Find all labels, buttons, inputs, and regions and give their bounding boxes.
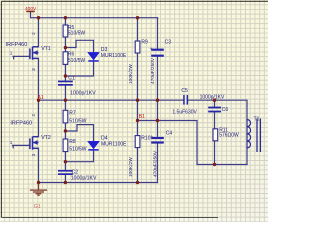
capacitor C1 [58,76,96,97]
svg-text:C1: C1 [68,76,75,82]
junction C2 / ground bus [64,181,67,184]
transformer core [257,119,260,153]
svg-text:1000p/1KV: 1000p/1KV [70,91,96,97]
svg-text:C4: C4 [166,131,173,137]
capacitor C5 [172,88,197,115]
wire VT1 source to node A1 [38,58,40,100]
capacitor C6 [200,94,229,113]
junction C6 top [213,99,216,102]
junction R11 bottom [213,163,216,166]
junction C3/C4 [156,99,159,102]
svg-text:C6: C6 [222,107,229,113]
wire D4 anode branch [65,125,93,142]
svg-text:R9: R9 [141,40,148,46]
svg-text:2: 2 [31,114,36,117]
border frame [1,1,268,217]
capacitor C4 electrolytic [150,131,172,177]
diode D4 MUR1100E [88,136,128,151]
wire R7 top lead [64,100,66,110]
svg-text:1000p/1KV: 1000p/1KV [200,94,225,100]
svg-text:510/5W: 510/5W [68,58,86,64]
svg-text:470uF/250V: 470uF/250V [150,57,156,84]
svg-text:100K/2W: 100K/2W [128,64,134,84]
wire C1 bottom [64,85,66,100]
svg-text:1: 1 [10,140,13,145]
svg-text:T1: T1 [254,117,260,123]
wire D3 anode branch [65,40,93,52]
power port 400V [25,6,37,12]
wire R9 bottom lead [137,53,139,100]
wire top rail 400V [31,12,158,18]
junction B1 / R10 lead [136,119,139,122]
junction node A1 / VT [37,99,40,102]
wire R5 top lead [64,18,66,26]
wire R10 top lead [137,100,139,135]
svg-text:IRFP460: IRFP460 [10,121,32,127]
wire R10 bottom lead [137,148,139,183]
junction R8/D4/C2 [64,160,67,163]
svg-text:3: 3 [31,153,36,156]
wire C6 to R11 [214,112,216,128]
wire R8 bottom [64,152,66,170]
junction VT2 source / ground [37,181,40,184]
svg-text:1000p/1KV: 1000p/1KV [71,176,97,182]
svg-text:VT2: VT2 [41,135,51,141]
junction top rail / R5 [64,16,67,19]
junction top rail / VT1 drain [37,16,40,19]
wire VT2 gate [13,145,30,147]
wire VT2 drain [38,100,40,137]
capacitor C2 [58,169,97,181]
svg-text:IRFP460: IRFP460 [6,42,28,48]
svg-text:R6: R6 [68,51,75,57]
resistor R8 [63,139,87,152]
wire R7-R8 link [64,123,66,139]
junction R5/R6/D3 [64,46,67,49]
junction R7/R8/D4 [64,129,67,132]
resistor R11 [213,127,239,140]
svg-text:MUR1100E: MUR1100E [101,141,127,147]
svg-text:1.5uF630V: 1.5uF630V [172,110,197,116]
wire D3 cathode to C1 [65,61,93,76]
svg-text:100K/2W: 100K/2W [128,157,134,177]
wire node B1 horizontal [138,121,248,165]
junction R9/R10 [136,99,139,102]
wire C3 top lead [157,18,159,49]
wire R6 bottom to C1 [64,64,66,81]
ground symbol G1 [30,183,47,211]
svg-text:MUR1100E: MUR1100E [101,53,127,59]
svg-text:R7: R7 [69,111,76,117]
svg-text:576Ω0W: 576Ω0W [219,133,239,139]
svg-text:3: 3 [31,68,36,71]
capacitor C3 electrolytic [150,40,172,84]
mosfet VT1 IRFP460 [6,32,51,71]
wire D4 cathode to R8 [65,150,93,162]
wire VT2 source to ground bus [38,148,40,182]
wire C4 bottom lead [157,144,159,183]
junction B1 / C4 lead [156,119,159,122]
wire node A1 horizontal [39,99,184,101]
wire VT1 gate [13,56,30,58]
resistor R6 [63,51,85,64]
svg-text:510/5W: 510/5W [69,146,87,152]
junction D3/C1 [64,74,67,77]
wire ground bus [39,182,158,184]
svg-text:B1: B1 [139,114,145,120]
svg-text:510/5W: 510/5W [68,30,86,36]
junction C1 bottom [64,99,67,102]
svg-text:C5: C5 [181,88,188,94]
svg-text:1: 1 [10,51,13,56]
wire R11 bottom lead [214,141,216,165]
wire C5 right to transformer [188,100,247,120]
svg-text:470uF/250V: 470uF/250V [153,150,159,177]
junction top rail / R9 [136,16,139,19]
resistor R5 [63,25,85,37]
svg-text:C2: C2 [72,169,79,175]
wire C3 bottom lead [157,57,159,100]
diode D3 MUR1100E [88,47,127,62]
svg-text:G1: G1 [34,204,41,210]
svg-text:510/5W: 510/5W [69,118,87,124]
svg-text:C3: C3 [165,40,172,46]
wire C6 top lead [214,100,216,106]
wire C2 bottom [64,174,66,182]
wire transformer bottom [246,148,248,165]
wire R5-R6 link [64,37,66,52]
transformer T1 primary coil [247,117,260,152]
wire C4 top lead [157,100,159,137]
wire R9 top lead [137,18,139,41]
junction R10 / ground bus [136,181,139,184]
mosfet VT2 IRFP460 [10,114,51,157]
resistor R9 [128,40,148,84]
resistor R10 [128,136,150,177]
svg-text:2: 2 [31,32,36,35]
svg-text:R8: R8 [69,139,76,145]
svg-text:R10: R10 [141,136,150,142]
wire VT1 drain [38,18,40,47]
svg-text:VT1: VT1 [41,46,51,52]
resistor R7 [63,110,87,124]
